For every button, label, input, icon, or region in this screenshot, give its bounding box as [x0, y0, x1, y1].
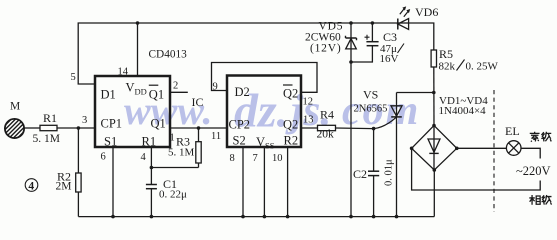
svg-text:C3: C3 [383, 30, 397, 44]
thyristor VS 2N6565 [354, 88, 403, 118]
resistor R1 [33, 111, 60, 145]
svg-text:EL: EL [505, 124, 520, 138]
resistor R4 [317, 108, 336, 141]
svg-text:VDD: VDD [126, 81, 147, 97]
resistor R5 [431, 47, 498, 73]
wire pin 10 to bottom rail [287, 147, 289, 217]
node rail pin7 [263, 215, 267, 219]
svg-text:Q1: Q1 [151, 117, 166, 131]
node pin4 / R3 / C1 [150, 166, 154, 170]
svg-text:13: 13 [303, 115, 314, 126]
svg-text:2M: 2M [56, 181, 72, 193]
node rail VS [395, 215, 399, 219]
wire pin 7 to bottom rail [263, 147, 265, 217]
node pin14 on rail [136, 21, 140, 25]
wire R2 to bottom rail [77, 192, 79, 217]
svg-text:Q2: Q2 [283, 87, 298, 101]
svg-text:M: M [10, 101, 20, 113]
svg-text:R4: R4 [320, 108, 334, 122]
svg-text:20k: 20k [317, 129, 335, 141]
svg-text:7: 7 [253, 153, 258, 164]
node junction R1/R2 [77, 126, 81, 130]
node rail pin10 [286, 215, 290, 219]
resistor R3 [168, 128, 201, 168]
node VD5 on rail [349, 21, 353, 25]
watermark [124, 85, 420, 138]
svg-text:2N6565: 2N6565 [354, 104, 388, 115]
svg-text:VD6: VD6 [415, 5, 438, 19]
node rail pin6 [111, 215, 115, 219]
node R3 top [197, 126, 201, 130]
svg-text:CP2: CP2 [229, 118, 251, 132]
wire M to R1 [24, 127, 40, 129]
svg-text:S2: S2 [233, 133, 246, 147]
svg-text:6: 6 [101, 152, 106, 163]
microphone M [0, 101, 50, 141]
wire bridge bottom to rail [433, 170, 435, 217]
svg-text:11: 11 [211, 131, 221, 142]
svg-text:3: 3 [82, 115, 87, 126]
wire mains loop lamp to bridge left [412, 148, 541, 190]
wire R1 to CP1 pin 3 [57, 127, 95, 129]
wire VD5 to bottom rail [350, 50, 352, 217]
dashed boundary line [493, 90, 495, 212]
svg-text:R1: R1 [142, 134, 157, 148]
wire bridge right to lamp [457, 147, 507, 149]
bridge rectifier VD1-VD4 [412, 95, 489, 170]
svg-text:Q1: Q1 [149, 88, 164, 102]
pin 2 stub Q1bar [170, 91, 188, 93]
svg-text:10: 10 [272, 153, 283, 164]
capacitor C3 [365, 23, 405, 65]
svg-text:C2: C2 [353, 167, 367, 181]
wire junction down to R2 [77, 128, 79, 173]
capacitor C2 [353, 129, 395, 217]
wire pin 14 to rail [137, 23, 139, 76]
svg-text:2: 2 [173, 81, 178, 92]
lamp EL [505, 124, 521, 155]
wire pin 4 down [150, 147, 152, 185]
flip-flop D1 box (CD4013 half 1) [95, 76, 170, 148]
wire D2 pin9 feedback loop from Q2bar pin12 [212, 63, 318, 93]
node rail C2 [372, 215, 376, 219]
zener VD5 [305, 21, 357, 55]
svg-text:VS: VS [363, 88, 378, 102]
svg-text:4: 4 [28, 181, 34, 193]
label live wire [529, 195, 551, 205]
wire R4 to gate node [336, 127, 374, 130]
node VD5/C3 ground link [349, 60, 353, 64]
node bridge left [410, 147, 414, 151]
node C3 on rail [371, 21, 375, 25]
figure number 4 [25, 179, 38, 193]
wire LED to R5 column [409, 23, 434, 50]
svg-text:1: 1 [170, 133, 175, 144]
node rail VD5 [349, 215, 353, 219]
wire Q2 pin13 to R4 [301, 127, 318, 129]
svg-text:CP1: CP1 [101, 117, 123, 131]
label neutral wire [530, 132, 552, 142]
node rail pin8 [241, 215, 245, 219]
svg-text:12: 12 [303, 97, 314, 108]
wire R3 bottom to C1 node [151, 167, 198, 169]
svg-text:5: 5 [71, 72, 76, 83]
svg-text:IC: IC [192, 95, 204, 109]
svg-text:5. 1M: 5. 1M [168, 147, 195, 159]
flip-flop D2 box [227, 76, 301, 151]
svg-text:~220V: ~220V [516, 164, 551, 178]
svg-text:0. 01μ: 0. 01μ [384, 159, 395, 186]
svg-text:0. 22μ: 0. 22μ [159, 189, 187, 201]
svg-text:R5: R5 [439, 47, 453, 61]
bottom ground rail [78, 216, 434, 218]
wire VS anode to R5 column [397, 92, 434, 94]
svg-text:0. 25W: 0. 25W [466, 61, 499, 73]
capacitor C1 [146, 177, 187, 201]
wire C1 to bottom rail [150, 189, 152, 217]
svg-text:8: 8 [230, 153, 235, 164]
node VS anode on R5 column [432, 91, 436, 95]
svg-text:S1: S1 [104, 134, 117, 148]
node gate/C2 [372, 127, 376, 131]
svg-text:CD4013: CD4013 [149, 49, 188, 61]
LED VD6 [398, 5, 439, 30]
resistor R2 [56, 170, 82, 193]
wire VS cathode to bottom rail [396, 117, 398, 217]
wire gate diagonal to VS cathode [374, 117, 397, 128]
svg-text:16V: 16V [380, 53, 399, 65]
svg-text:R2: R2 [284, 133, 299, 147]
svg-text:D2: D2 [235, 85, 250, 99]
wire Q1 pin1 to CP2 pin11 [170, 127, 227, 129]
wire VDD rail with pin 5 branch [78, 23, 397, 84]
node bridge top [432, 124, 436, 128]
svg-text:1N4004×4: 1N4004×4 [439, 105, 487, 117]
wire pin 8 to bottom rail [242, 147, 244, 217]
svg-text:Q2: Q2 [283, 118, 298, 132]
svg-text:(12V): (12V) [310, 43, 341, 55]
svg-text:9: 9 [213, 82, 218, 93]
svg-text:D1: D1 [101, 88, 116, 102]
node bridge bottom [433, 168, 437, 172]
svg-text:4: 4 [141, 152, 147, 163]
wire ground link C3 [351, 46, 372, 62]
wire R5 to bridge top [433, 67, 435, 126]
node bridge right [455, 147, 459, 151]
svg-text:82k: 82k [439, 61, 456, 73]
svg-text:R1: R1 [43, 111, 57, 125]
svg-text:5. 1M: 5. 1M [33, 133, 60, 145]
wire pin 6 to bottom rail [112, 147, 114, 217]
node rail C1 [150, 215, 154, 219]
